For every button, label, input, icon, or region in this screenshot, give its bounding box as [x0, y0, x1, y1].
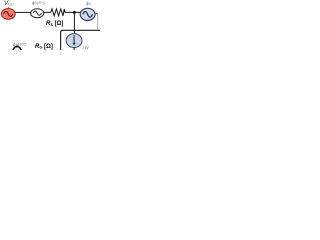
current source — [66, 34, 82, 48]
wire (tick above eNRG) — [16, 45, 18, 47]
noise voltage source eNRS — [31, 9, 44, 18]
junction dot — [73, 11, 76, 14]
svg-text:ϕNRG: ϕNRG — [13, 42, 27, 47]
wire — [44, 11, 52, 13]
svg-text:VDD: VDD — [4, 1, 14, 7]
svg-text:ϕv: ϕv — [86, 1, 92, 6]
wire (bottom rail with rounded corner) — [61, 30, 100, 50]
noise voltage source eNRG (cut off at bottom) — [13, 47, 21, 57]
voltage source V_DD — [1, 7, 15, 19]
background — [0, 0, 100, 50]
wire (stub below current source) — [73, 48, 75, 50]
wire (right stub down) — [95, 13, 98, 15]
svg-text:RG [Ω]: RG [Ω] — [35, 44, 53, 50]
wire — [65, 11, 81, 13]
wire — [15, 11, 31, 13]
svg-text:i N: i N — [83, 45, 90, 50]
resistor RS — [51, 9, 65, 16]
wire (right vertical, faint) — [97, 14, 99, 30]
svg-text:RS [Ω]: RS [Ω] — [46, 21, 63, 27]
voltage source (right, e_v) — [80, 8, 95, 20]
svg-text:ϕNRS: ϕNRS — [32, 1, 45, 6]
wire (junction down to current source) — [73, 12, 75, 34]
